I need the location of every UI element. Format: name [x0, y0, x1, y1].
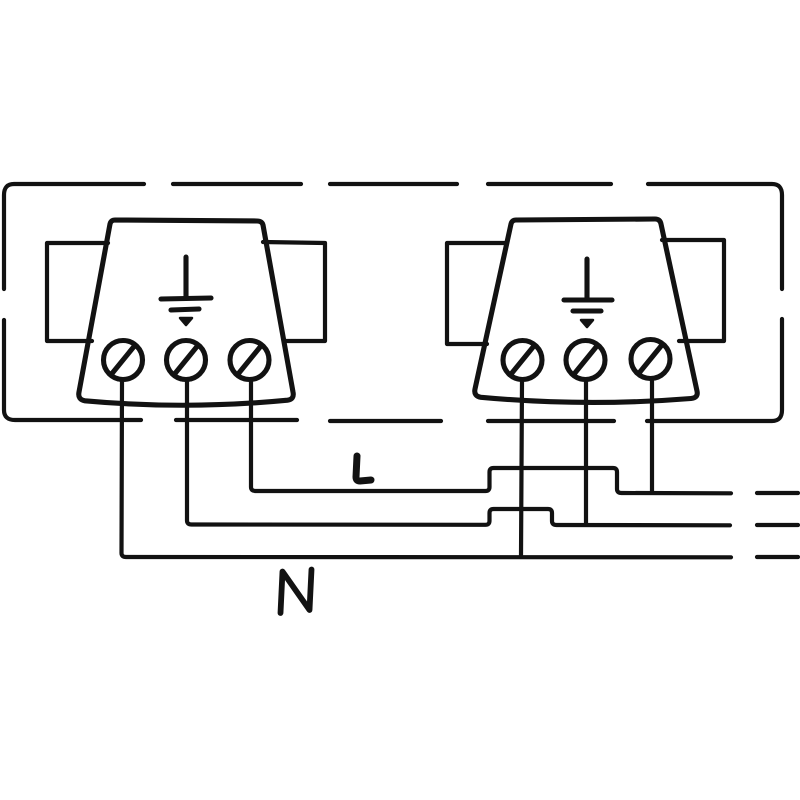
SO2 terminal screw 2 (middle): [566, 341, 605, 380]
wire L: SO1 terminal 3 down and right with hop to SO2 terminal 3, off right edge: [251, 382, 731, 493]
SO1 terminal screw 2 (middle): [167, 341, 206, 380]
wire mid: SO1 terminal 2 down and right with hop to SO2 terminal 2, off right edge: [187, 382, 730, 525]
label N: [281, 570, 312, 614]
SO1 earth ground symbol: [161, 257, 211, 325]
wire N: SO1 terminal 1 down and right to SO2 terminal 1, off right edge: [122, 382, 732, 557]
socket outlet SO1 right mounting tab: [263, 242, 325, 341]
SO2 terminal screw 1 (left): [503, 341, 542, 380]
wire mid drop from SO2 terminal 2: [584, 382, 588, 525]
SO2 earth ground symbol: [564, 259, 612, 327]
enclosure dashed box top edge: [4, 184, 782, 289]
wire N continuation dash at right edge: [757, 555, 798, 559]
enclosure dashed box left edge / bottom edge: [4, 319, 782, 421]
wire L drop from SO2 terminal 3: [650, 381, 654, 492]
socket outlet SO1 body: [79, 220, 294, 405]
wire L continuation dash at right edge: [757, 491, 798, 495]
socket outlet SO2 body: [475, 219, 698, 402]
label L: [356, 456, 371, 481]
SO2 terminal screw 3 (right): [631, 340, 670, 379]
SO1 terminal screw 1 (left): [104, 341, 143, 380]
socket outlet SO2 right mounting tab: [662, 240, 724, 341]
wire N drop from SO2 terminal 1: [521, 382, 522, 556]
wire mid continuation dash at right edge: [757, 523, 798, 527]
SO1 terminal screw 3 (right): [230, 341, 269, 380]
socket outlet SO1 left mounting tab: [47, 243, 108, 341]
socket outlet SO2 left mounting tab: [447, 243, 507, 344]
